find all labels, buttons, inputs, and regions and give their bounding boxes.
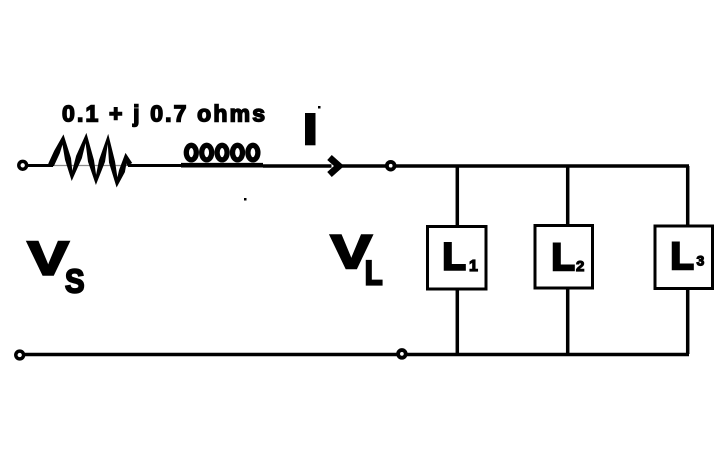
svg-text:L: L [443,237,466,279]
load L2 box [535,226,593,289]
node: load terminal bottom (open circle) [398,350,406,358]
svg-text:2: 2 [576,258,584,275]
speck near I [318,106,321,109]
wire: thin line under resistor [53,165,128,167]
wire: source top terminal to resistor [27,164,53,167]
inductor L (coil, 5 loops) [181,145,263,165]
wire: bottom of L1 [456,289,460,354]
terminal: source bottom (open circle) [16,351,24,359]
svg-text:V: V [28,231,70,284]
wire: top of L1 [456,166,460,227]
wire: bottom return [20,353,689,357]
wire: bottom of L2 [566,288,570,354]
wire: bottom of L3 [686,289,690,355]
svg-text:3: 3 [697,253,705,269]
svg-text:1: 1 [469,258,478,275]
label VL [331,225,383,293]
label L3 [671,236,705,278]
wire: arrow to top-right corner [341,164,689,168]
svg-text:L: L [365,255,383,293]
label L1 [443,237,479,279]
svg-text:L: L [552,237,575,279]
label L2 [552,237,585,279]
label 0.1 + j 0.7 ohms [62,101,265,127]
load L3 box [655,226,713,289]
terminal: source top (open circle) [19,161,27,169]
svg-text:L: L [671,236,694,278]
label VS [28,231,85,299]
resistor R (0.1 + j 0.7 ohms) zigzag [48,133,132,188]
wire: top of L2 [566,166,570,226]
wire: resistor to inductor [128,164,186,167]
node: load terminal top (open circle) [387,162,395,170]
speck below inductor [244,198,247,201]
wire: inductor to current arrow [263,164,332,168]
load L1 box [428,227,487,290]
svg-text:0.1 + j 0.7 ohms: 0.1 + j 0.7 ohms [62,101,265,127]
label I (current) [305,113,316,145]
svg-text:S: S [65,263,85,300]
wire: top of L3 [686,166,690,226]
current arrow head [330,158,340,175]
